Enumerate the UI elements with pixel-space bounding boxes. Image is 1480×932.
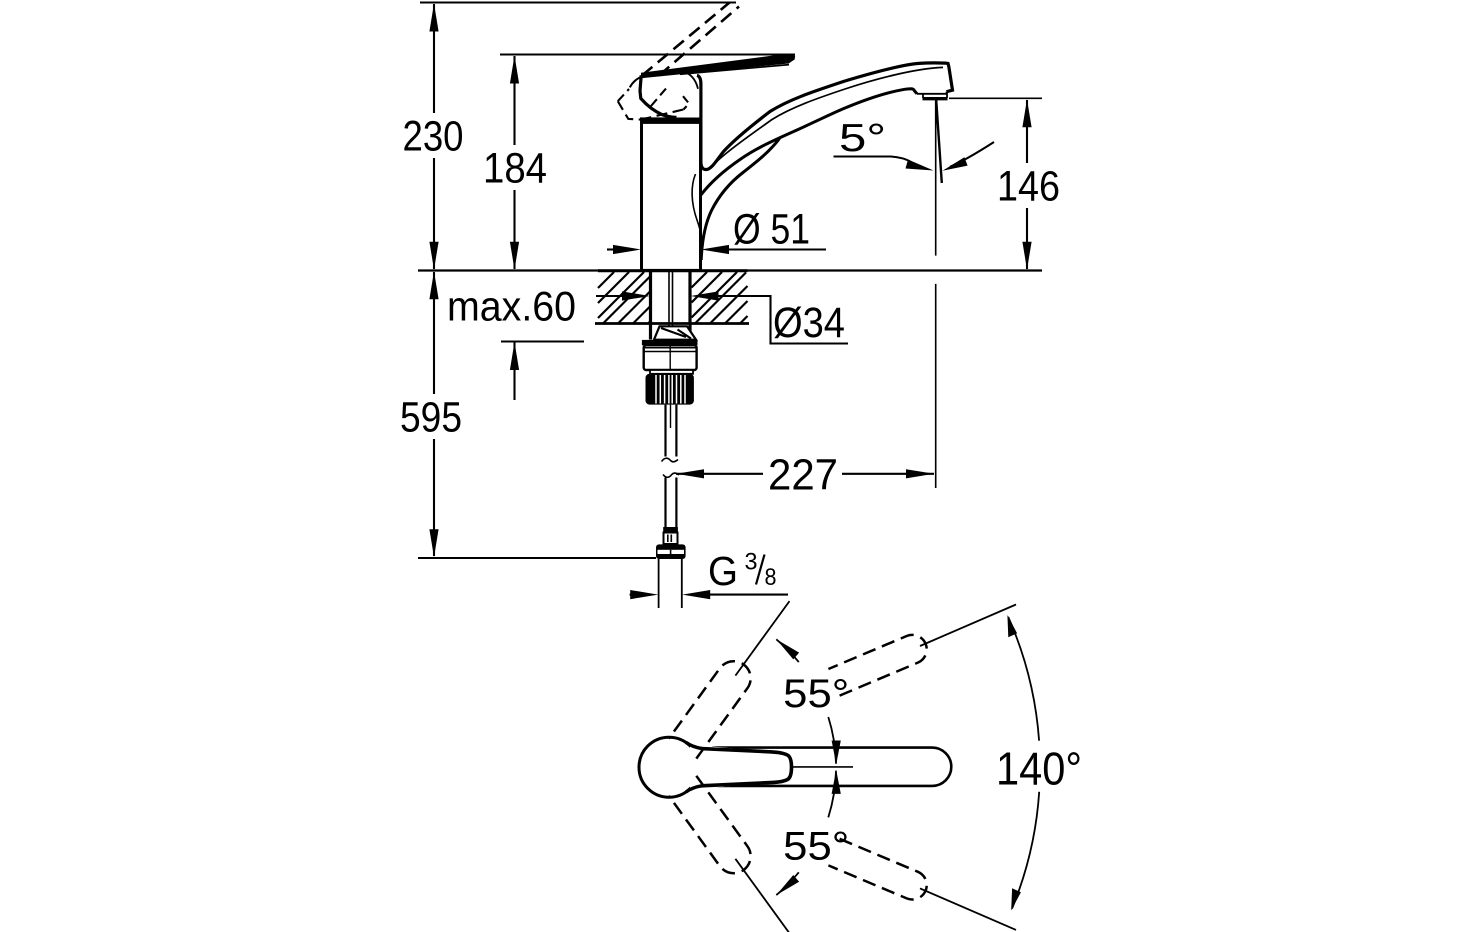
140 degree arc [1008,617,1039,741]
handle blade (solid, lowered) [641,54,795,78]
spout bottom edge [701,89,917,195]
nut lip [650,370,693,374]
hose end nut G3/8 [656,544,686,559]
spout throat line [692,174,701,236]
5 degree right arc [950,142,994,167]
countertop hatching left block [598,272,650,324]
handle centerline [792,766,853,768]
G3/8 threaded pipe [659,559,682,608]
dimension 230 line [433,4,435,269]
dimension G3/8 arrows [630,594,635,596]
knurled adapter [646,374,694,405]
hose break marks [662,458,679,462]
svg-text:55°: 55° [783,672,849,716]
extension line upper spout [920,605,1016,647]
top reference line (raised handle height) [420,2,736,4]
raised handle base left edge dash [618,89,629,101]
raised handle blade (dashed) right edge [659,7,739,76]
svg-text:184: 184 [483,145,547,193]
svg-text:Ø34: Ø34 [773,299,845,347]
svg-text:3: 3 [745,549,758,576]
aerator block [923,92,947,98]
supply pipe inside shank [669,272,673,344]
svg-text:8: 8 [765,564,777,591]
dimension 146 extension line at spout outlet [949,97,1042,99]
595 bottom reference line [418,557,656,559]
svg-text:595: 595 [400,394,462,442]
water stream tilted line [936,100,942,183]
dimension max.60 arrow [513,343,515,401]
dimension 595 line [433,272,435,556]
countertop line [418,269,1042,271]
55 degree arc upper [776,639,799,662]
dimension Ø34 arrows at shank [596,295,623,297]
countertop band top edge [598,269,748,272]
aerator top step line [917,92,947,94]
dashed handle position upper [669,661,751,758]
svg-text:Ø 51: Ø 51 [733,206,810,254]
dimension Ø34 leader line [718,296,848,344]
cartridge dome right arc [682,71,698,89]
svg-text:G: G [708,548,738,594]
spout base silhouette [701,139,779,261]
countertop hatching right block [692,272,748,324]
extension line lower handle [735,859,789,932]
raised handle base bottom dashes [618,101,641,119]
dimension Ø51 arrows at body base [607,248,614,250]
shank outer walls [651,272,691,340]
spout inner line [707,67,944,170]
svg-text:146: 146 [997,163,1060,211]
svg-text:5°: 5° [839,117,886,160]
body plan circle [639,737,699,797]
svg-text:55°: 55° [783,825,849,869]
svg-text:140°: 140° [996,742,1082,794]
faucet body column [642,122,701,270]
water stream vertical line [935,100,937,488]
raised handle blade (dashed) left edge [642,3,730,76]
countertop bottom line [595,322,749,325]
dimension 184 line [513,56,515,269]
55 degree arc lower [776,872,799,895]
extension line upper handle [735,601,789,676]
body top black band [640,117,702,122]
raised handle base cross dash [641,110,684,120]
5 degree leader line [834,157,912,163]
hose crimp collar [663,527,678,533]
extension line lower spout [920,888,1016,930]
mounting nut [644,345,697,370]
dimension 146 line [1026,100,1028,269]
184 reference line (lowered handle height) [500,54,795,56]
dimension 227 line [676,473,763,475]
raised handle base inner edge dash [651,89,666,107]
dashed spout position upper [828,635,926,696]
supply hose lower section [666,478,677,528]
horseshoe washer [654,326,696,339]
handle blade underside line [680,65,789,75]
svg-text:230: 230 [403,113,464,161]
spout top edge [697,63,953,170]
rubber washer black band [642,340,698,345]
supply hose upper section [666,405,677,457]
handle base outline [640,75,677,117]
spout plan capsule (thin) [712,748,951,786]
handle base fill [640,75,701,117]
raised handle base chevron dashes [683,96,689,109]
dimension max.60 extension line [501,340,584,342]
dashed spout position lower [828,839,926,900]
handle grip plan (thick) [690,745,790,790]
svg-text:227: 227 [768,451,838,500]
cartridge dome left arc [630,77,641,87]
svg-text:max.60: max.60 [447,283,576,330]
dashed handle position lower [669,776,751,873]
